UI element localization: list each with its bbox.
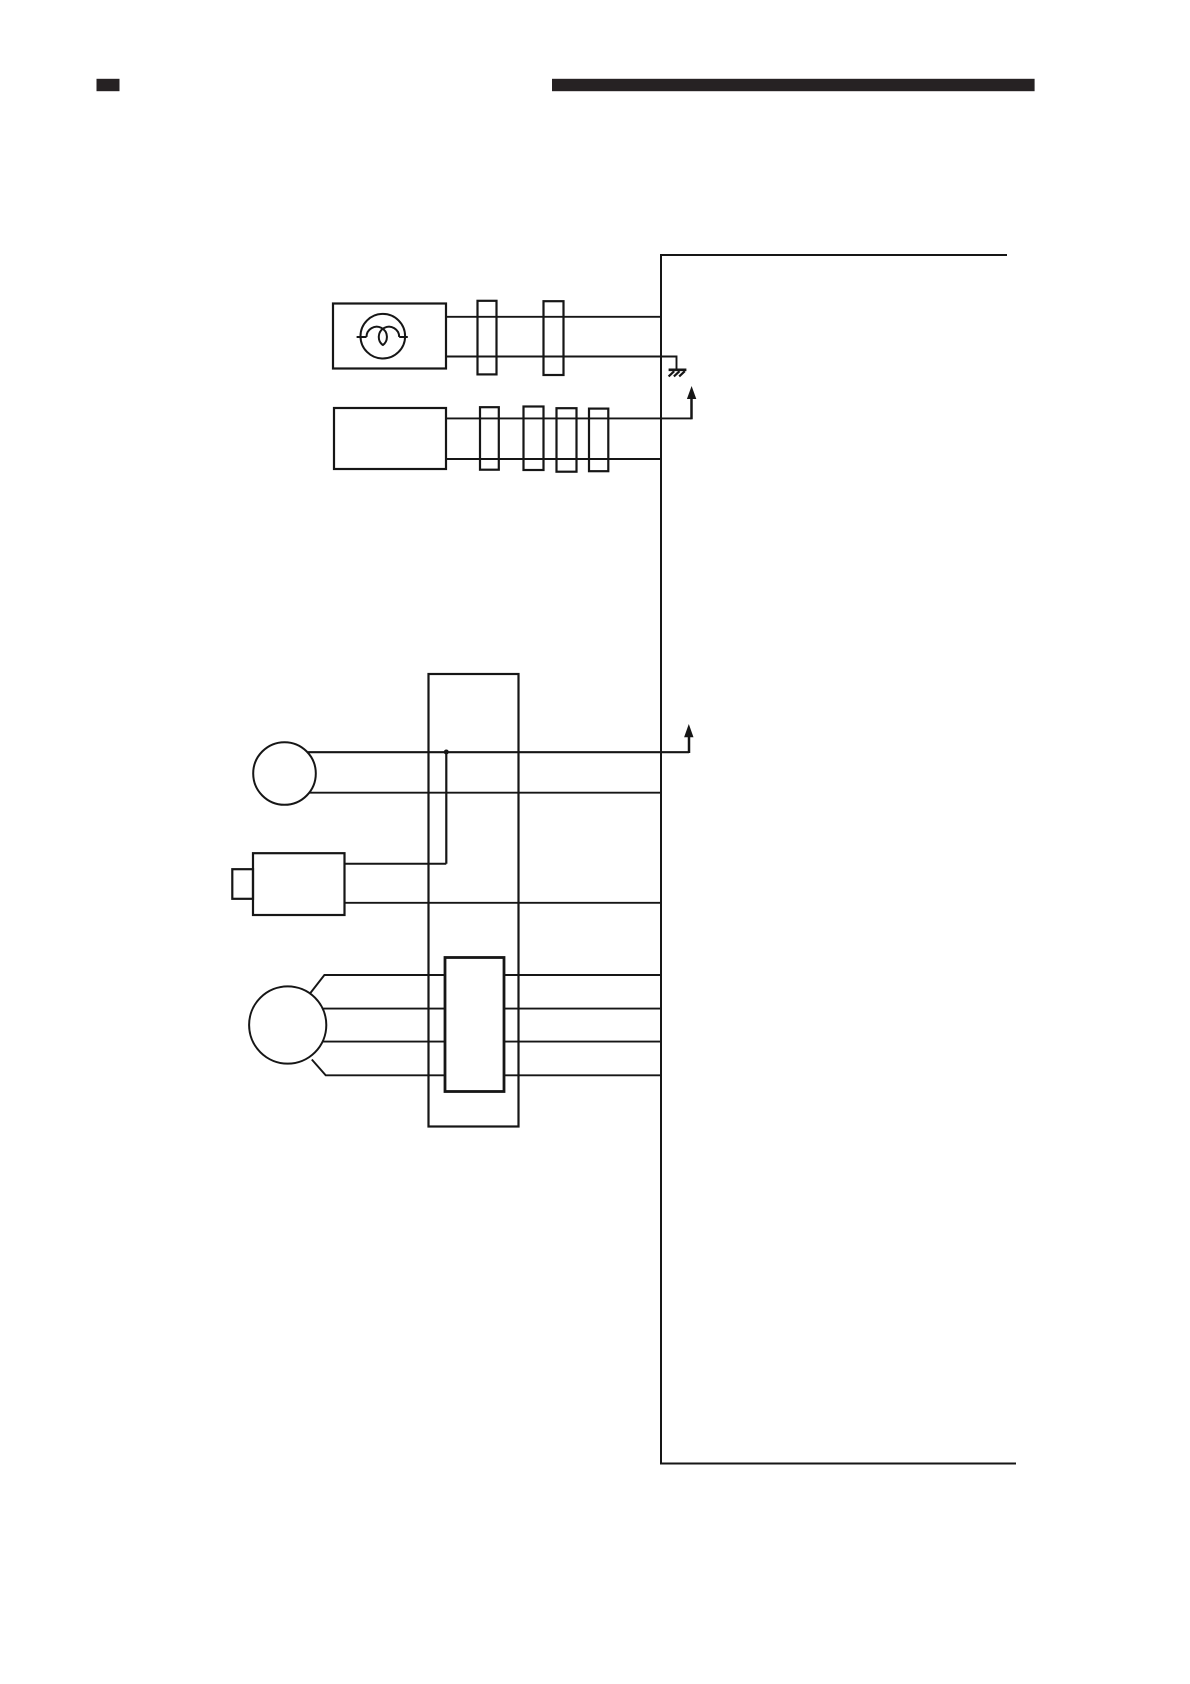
driver inner box: [445, 958, 504, 1092]
lamp unit LA1 box: [333, 304, 446, 369]
sensor circle S1: [253, 742, 316, 805]
wire junction vertical: [445, 752, 447, 864]
connector J3: [480, 407, 499, 470]
page corner marker bar: [97, 79, 120, 91]
connector J1: [478, 301, 497, 375]
wire M1 line 2: [323, 1008, 662, 1010]
relay tall box: [429, 674, 519, 1127]
main PCB outline (open right side): [661, 255, 1016, 1464]
wire M1 line 3: [322, 1041, 661, 1043]
connector J4: [524, 407, 544, 471]
signal arrow A1: [687, 386, 696, 419]
wire M1 line 4: [312, 1060, 661, 1076]
wire lamp bottom to ground: [446, 357, 677, 369]
wire lamp top: [446, 316, 660, 318]
wire S1 top: [308, 751, 689, 753]
lamp symbol: [357, 314, 408, 359]
connector J2: [544, 301, 564, 375]
unit box B2: [334, 408, 446, 469]
motor circle M1: [249, 986, 326, 1063]
wire B2 top: [446, 417, 692, 419]
switch box SW1: [253, 853, 345, 915]
wire M1 line 1: [310, 975, 661, 993]
connector J6: [589, 409, 608, 472]
header title bar: [552, 79, 1035, 91]
connector J5: [557, 408, 577, 472]
signal arrow A2: [684, 724, 693, 753]
switch box SW1 tab: [232, 869, 253, 899]
junction node dot: [444, 750, 449, 755]
wire B2 bottom: [446, 458, 662, 460]
chassis ground: [669, 370, 687, 377]
wire SW1 bottom: [345, 902, 662, 904]
wire S1 bottom: [309, 792, 661, 794]
wire SW1 top: [345, 863, 447, 865]
